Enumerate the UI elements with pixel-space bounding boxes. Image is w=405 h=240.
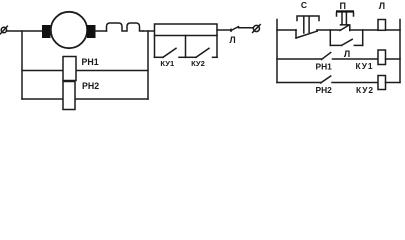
motor brush left [42,25,51,38]
svg-text:Л: Л [344,49,350,59]
svg-text:П: П [339,1,345,11]
contactor coil Л [378,20,386,31]
self-holding contact Л branch [330,30,362,45]
wire C to П [317,29,340,31]
motor brush right [87,25,96,38]
starting resistor R [155,24,218,36]
control circuit right rail [399,20,401,83]
wire coil Л to right rail [386,29,401,31]
svg-text:РН1: РН1 [316,62,333,72]
relay coil PH2 [63,82,75,110]
svg-text:Л: Л [230,35,236,45]
svg-text:КУ2: КУ2 [191,59,205,68]
cell wall right [216,36,218,58]
svg-text:КУ1: КУ1 [160,59,175,68]
terminal right (crossed circle) [253,25,261,33]
svg-text:С: С [301,0,307,10]
node junction vertical to relay branch [147,31,149,99]
rung 2 wire middle [333,58,379,60]
wire relay line 1 [22,70,148,72]
series field winding L1 [107,23,144,31]
wire coil KY1 to right rail [386,58,401,60]
rung 3 wire middle [332,82,378,84]
terminal left (crossed circle) [0,26,7,34]
start button П (NO) [336,10,354,30]
rung 1 wire left [277,29,296,31]
svg-text:Л: Л [379,1,385,11]
svg-text:РН2: РН2 [82,81,99,91]
contact KY1 (shorting contact, left cell) [155,48,186,57]
relay coil PH1 [63,57,76,81]
wire from left terminal to motor [6,30,42,32]
motor armature M1 [51,12,87,48]
control circuit left rail [276,20,278,83]
branch vertical from main wire down [21,31,23,99]
wire П to coil Л [350,29,378,31]
wire relay line 2 (bottom) [22,98,148,100]
svg-text:КУ1: КУ1 [356,61,374,71]
rung 3 wire left [277,82,321,84]
contactor coil KY1 [378,50,386,65]
contactor coil KY2 [378,76,386,90]
cell wall left [154,36,156,58]
switch Л blade [231,27,239,31]
svg-text:РН2: РН2 [316,85,333,95]
svg-text:КУ2: КУ2 [356,85,374,95]
wire resistor to switch [217,29,231,31]
contact KY2 (shorting contact, right cell) [186,48,218,57]
cell wall middle [185,36,187,58]
rung 2 wire left [277,58,322,60]
stop button C (NC) [296,16,319,38]
wire coil KY2 to right rail [386,82,401,84]
contact PH2 (NO) [321,76,331,83]
wire switch to right terminal [239,27,254,29]
wire motor to series winding [95,30,107,32]
wire winding to resistor [143,30,155,32]
switch Л pivot [230,29,232,31]
contact PH1 (NO) [322,53,331,60]
svg-text:РН1: РН1 [82,57,99,67]
